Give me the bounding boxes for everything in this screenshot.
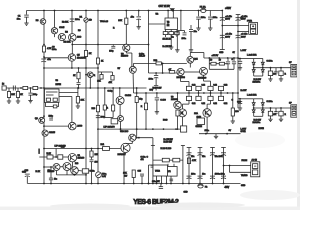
wire R22 lead — [8, 88, 10, 92]
svg-text:R2 10K: R2 10K — [62, 21, 69, 23]
wire Q4b feed — [71, 45, 73, 54]
node j-b188.5 — [188, 183, 190, 185]
IC U6 box — [181, 126, 187, 132]
capacitor C22 — [154, 86, 158, 88]
svg-text:1K 1K 1K: 1K 1K 1K — [163, 38, 172, 40]
IC U2 regulator — [165, 18, 178, 30]
node j-a115 — [43, 115, 45, 117]
node j-b148.0 — [148, 183, 150, 185]
capacitor C9 — [175, 33, 179, 35]
node j-fb2 — [138, 137, 140, 139]
resistor R41 — [103, 147, 110, 151]
svg-text:TRANS: TRANS — [241, 174, 248, 177]
node j-b133.2 — [133, 183, 135, 185]
resistor R-sp20 — [268, 111, 272, 116]
svg-text:AC IN: AC IN — [252, 159, 258, 162]
svg-text:2SA1837: 2SA1837 — [118, 153, 127, 156]
resistor R33 — [219, 62, 224, 65]
wire sp1-bot — [254, 75, 263, 77]
wire sp1-leg1 — [280, 68, 282, 71]
wire R52 lead — [133, 178, 135, 184]
wire bus-C (x=85.5) — [85, 11, 87, 184]
resistor RE2 — [196, 86, 201, 90]
wire CN2-bus — [199, 148, 201, 184]
wire sp1-leg0 — [270, 68, 272, 71]
connector J1 DC input — [249, 23, 258, 35]
svg-text:L 2uH 10R: L 2uH 10R — [247, 95, 257, 97]
wire mid wire y67 — [44, 67, 98, 69]
diode D1 — [84, 18, 88, 22]
transistor Q25 — [96, 172, 102, 178]
svg-text:100n: 100n — [213, 17, 217, 19]
svg-text:100n 25V: 100n 25V — [152, 181, 160, 183]
resistor R52 — [132, 170, 135, 178]
wire vas wire y71 — [98, 71, 113, 73]
node j-b161 — [161, 183, 163, 185]
node sp1-oj1 — [253, 67, 255, 69]
transistor Q19 — [121, 143, 130, 152]
svg-text:2SC4793: 2SC4793 — [77, 57, 87, 59]
wire Q17 em lead3 — [206, 104, 208, 109]
svg-text:471: 471 — [141, 159, 144, 161]
wire Q10 em — [119, 105, 121, 116]
svg-text:0.22: 0.22 — [202, 103, 206, 105]
svg-text:10: 10 — [273, 74, 275, 76]
wire C42 stub — [50, 167, 52, 178]
capacitor C35 — [140, 174, 144, 176]
wire C8 stub — [209, 11, 211, 17]
svg-text:SENSE: SENSE — [196, 126, 203, 128]
transistor Q22c — [71, 167, 79, 175]
wire Q12 coll — [132, 73, 134, 93]
node j-m4 — [177, 92, 179, 94]
resistor R26 — [96, 105, 99, 112]
wire ltp em2 — [66, 171, 68, 175]
resistor R23 — [16, 92, 19, 98]
node j-b91 — [91, 183, 93, 185]
wire Q20 base — [44, 166, 53, 168]
terminal bar Q — [236, 14, 241, 16]
transistor Q21 — [68, 154, 76, 162]
node bus-A j56 — [43, 56, 45, 58]
transistor Q10 — [116, 97, 124, 105]
transistor Q11 — [118, 116, 124, 122]
resistor R-sp10 — [268, 71, 272, 76]
wire bias rail — [204, 57, 238, 59]
wire Q14 coll — [189, 53, 191, 57]
wire sp1-top — [238, 58, 254, 60]
capacitor C14 — [236, 18, 241, 21]
node j-out136.2 — [136, 92, 138, 94]
ground G3 — [169, 46, 173, 50]
wire R34 lead2 — [232, 116, 234, 120]
ground G-sp10 — [268, 78, 272, 82]
resistor R57 — [111, 76, 114, 81]
wire sp2-zobel-stub2 — [239, 104, 241, 107]
node rail-top j125.8 — [125, 10, 127, 12]
wire sp2-zobel-stub — [239, 99, 241, 101]
wire input rail — [3, 87, 147, 89]
IC U5 thermal box — [197, 118, 205, 125]
node j-out198.0 — [198, 92, 200, 94]
wire Q19 em — [123, 152, 125, 183]
wire sp2-leg1 — [280, 108, 282, 111]
fuse F2 — [198, 184, 203, 188]
svg-text:7912: 7912 — [155, 170, 161, 172]
node rail-top j71.5 — [71, 10, 73, 12]
capacitor C42 — [49, 178, 53, 180]
wire U3 pin-r1 — [59, 92, 78, 94]
svg-text:100V: 100V — [225, 36, 230, 38]
node rail-top j198 — [198, 10, 200, 12]
svg-text:0.22: 0.22 — [202, 85, 206, 87]
wire C33 lead — [26, 177, 28, 184]
connector J-IN — [2, 86, 6, 90]
node j-b123.5 — [123, 183, 125, 185]
wire u7 stub1 — [167, 164, 169, 167]
wire C26 lead2 — [156, 100, 158, 111]
capacitor C43 — [90, 160, 94, 162]
wire C11 lead — [190, 25, 192, 29]
node sp2-zj — [239, 98, 241, 100]
svg-text:C3423: C3423 — [125, 95, 132, 97]
svg-text:C 10n: C 10n — [90, 171, 95, 173]
wire sp1-zobel-stub2 — [239, 63, 241, 66]
wire Q4b coll — [71, 41, 73, 44]
capacitor C18 — [49, 118, 53, 120]
resistor R36 — [144, 103, 147, 110]
resistor R21 — [33, 86, 38, 89]
terminal T-IN — [38, 149, 40, 154]
wire bus-D (x=97.5) — [97, 11, 99, 184]
resistor R13 — [169, 32, 174, 35]
capacitor CN2a — [198, 153, 203, 156]
node j-n165b — [229, 165, 231, 167]
transistor Q20 — [53, 164, 60, 171]
node j-fb3 — [97, 148, 99, 150]
svg-text:10u: 10u — [202, 174, 205, 176]
wire R36 lead2 — [145, 110, 147, 129]
capacitor C17 — [28, 93, 32, 95]
wire Q17 coll — [206, 117, 208, 134]
node j-67b — [78, 67, 80, 69]
wire CN1-bus — [188, 148, 190, 184]
svg-text:2SC4793: 2SC4793 — [177, 77, 186, 79]
svg-text:100u: 100u — [191, 174, 195, 176]
node rail-top j43.5 — [43, 10, 45, 12]
wire bias drop — [203, 53, 205, 59]
wire dc+ wire — [222, 25, 248, 27]
node j-b97.5 — [97, 183, 99, 185]
wire Q6 em down — [131, 53, 133, 66]
node j-in2 — [30, 87, 32, 89]
capacitor C8 — [208, 17, 213, 19]
wire sp2-dcol2 — [262, 99, 264, 117]
svg-text:PWR: PWR — [247, 20, 252, 22]
capacitor C24 — [232, 62, 236, 64]
resistor RE4 — [218, 86, 223, 90]
IC U7 relay box — [165, 167, 177, 177]
wire sp2-leg0 — [270, 108, 272, 111]
node rail-top j54 — [54, 10, 56, 12]
svg-text:100n: 100n — [205, 130, 209, 132]
resistor R-sp21 — [279, 111, 283, 116]
svg-text:10u: 10u — [48, 170, 51, 172]
node sp1-oj3 — [270, 67, 272, 69]
node j-tail1 — [74, 174, 76, 176]
wire Q18 out — [136, 137, 153, 139]
resistor R51 — [82, 169, 88, 173]
svg-text:F1 5A: F1 5A — [200, 6, 206, 9]
wire C42 stub2 — [50, 180, 52, 184]
diode D-sp24 — [261, 110, 264, 113]
wire sp1-dcol1 — [253, 59, 255, 77]
capacitor C1 — [24, 15, 29, 17]
resistor R27 — [103, 105, 106, 110]
svg-text:GND: GND — [184, 192, 189, 194]
transistor Q18 — [129, 134, 136, 141]
wire Q21 em — [71, 162, 73, 167]
wire R4 top — [43, 45, 45, 47]
node sp1-oj2 — [262, 67, 264, 69]
svg-text:4.7K: 4.7K — [192, 160, 197, 162]
wire u8 stub1 — [156, 176, 158, 184]
ground G-sp20 — [268, 118, 272, 122]
ground G-sp1z — [238, 67, 242, 71]
node j-p1 — [221, 25, 223, 27]
terminal bar LM2 — [181, 145, 185, 147]
node j-128-175.5 — [175, 128, 177, 130]
wire snub v3b — [233, 64, 235, 70]
resistor R14 — [175, 32, 180, 35]
svg-text:47u: 47u — [191, 156, 194, 158]
capacitor C-sp2z — [238, 102, 242, 104]
node j-q24b — [89, 87, 91, 89]
node j-bias218.7 — [218, 57, 220, 59]
node j-fb0 — [43, 148, 45, 150]
wire sp2-bot — [254, 115, 263, 117]
node rail-top j85.5 — [85, 10, 87, 12]
svg-text:47u 100V: 47u 100V — [215, 156, 224, 158]
wire Q7 base wire — [44, 125, 69, 127]
node bus-A j44 — [43, 44, 45, 46]
wire drv wire-72 — [149, 72, 178, 74]
wire sp1-zobel-stub — [239, 59, 241, 61]
node j-out188.5 — [188, 92, 190, 94]
wire Q10 feed — [119, 88, 121, 97]
wire R23 lead — [17, 88, 19, 92]
node j-m2 — [145, 92, 147, 94]
svg-text:100n: 100n — [52, 49, 56, 51]
svg-text:R 1K: R 1K — [47, 153, 52, 155]
wire sp1-out — [254, 67, 291, 69]
node rail-top j148 — [148, 10, 150, 12]
resistor R46 — [187, 158, 190, 164]
resistor R37 — [176, 110, 179, 116]
wire U3 pin-r2 — [59, 96, 72, 98]
transistor Q23 — [174, 101, 182, 109]
svg-text:C 10p: C 10p — [108, 90, 113, 92]
node bus-A j67 — [43, 67, 45, 69]
svg-text:47u: 47u — [202, 156, 205, 158]
node sp2-oj2 — [262, 107, 264, 109]
wire Q6 em — [125, 51, 127, 53]
node j-c40 — [78, 87, 80, 89]
capacitor C15 — [236, 35, 241, 38]
svg-text:100V: 100V — [241, 36, 246, 38]
wire ac vlink — [229, 166, 231, 173]
wire lm v182 — [182, 146, 184, 184]
node j-out232.3 — [232, 92, 234, 94]
node j-b43.5 — [43, 183, 45, 185]
wire bus-B (x=71.5) — [71, 11, 73, 34]
node j-in4 — [43, 87, 45, 89]
resistor R22 — [7, 92, 10, 98]
svg-text:471-10: 471-10 — [139, 56, 145, 58]
capacitor CN3b — [210, 176, 215, 179]
wire Q16 em lead3 — [182, 104, 184, 109]
wire C9a lead — [176, 31, 178, 33]
diode D2 — [170, 9, 174, 11]
wire sp1-leg1b — [280, 76, 282, 78]
svg-text:2SC5200: 2SC5200 — [198, 78, 207, 80]
wire vas-x136 — [136, 88, 138, 97]
resistor R56 — [100, 75, 103, 80]
svg-text:100n: 100n — [201, 17, 205, 19]
node j-q24 — [85, 74, 87, 76]
svg-text:C945: C945 — [59, 27, 65, 29]
wire lm v152 — [152, 138, 154, 184]
node j-128-163.0 — [163, 128, 165, 130]
svg-text:R5 10K: R5 10K — [64, 42, 72, 44]
ground G10 — [231, 120, 235, 124]
wire C17 lead — [30, 88, 32, 93]
svg-text:100V: 100V — [225, 19, 230, 21]
node j-b156 — [156, 183, 158, 185]
node sp2-oj1 — [253, 107, 255, 109]
wire sp1-dcol2 — [262, 59, 264, 77]
wire C9 stub — [180, 11, 182, 31]
svg-text:0.22: 0.22 — [192, 85, 196, 87]
wire Q2-Q3 link — [54, 34, 56, 37]
wire ltp tail — [57, 174, 87, 176]
wire Q14 top wire — [190, 52, 204, 54]
wire R24 lead2 — [77, 103, 79, 105]
wire C35 lead — [141, 176, 143, 184]
svg-text:R 4.7K 1W: R 4.7K 1W — [163, 46, 172, 48]
svg-text:-50V: -50V — [224, 187, 229, 189]
wire R57 stub — [112, 72, 114, 76]
svg-text:1000u 100n: 1000u 100n — [215, 174, 225, 176]
wire R23 lead2 — [17, 98, 19, 101]
wire ltp in wire2 — [53, 156, 58, 158]
node rail-top j97.5 — [97, 10, 99, 12]
node j-b148 — [148, 183, 150, 185]
capacitor C16 (input coupling) — [13, 86, 15, 91]
capacitor C-sp1m — [274, 68, 277, 76]
node j-n165 — [223, 165, 225, 167]
node j-q1 — [237, 25, 239, 27]
IC U4 small box — [111, 119, 118, 124]
wire vbe wire — [134, 62, 187, 64]
node j-out203.4 — [203, 92, 205, 94]
svg-text:L 2uH 10R: L 2uH 10R — [247, 54, 257, 56]
wire base wire Q4 — [44, 57, 68, 59]
node j-c42 — [50, 166, 52, 168]
terminal bar CN1 — [187, 147, 192, 149]
svg-text:100p: 100p — [109, 51, 113, 53]
svg-text:MUTE: MUTE — [56, 84, 62, 86]
wire snub v3 — [233, 58, 235, 61]
resistor R6 — [84, 51, 87, 57]
wire U2 pin1 — [170, 30, 172, 32]
node j-44a — [85, 44, 87, 46]
svg-text:OUT 27.5V: OUT 27.5V — [159, 6, 171, 8]
transistor Q24 — [88, 72, 94, 78]
wire sp2-leg1b — [280, 116, 282, 118]
resistor R55 — [77, 72, 80, 79]
node j-u2a — [167, 10, 169, 12]
wire R13 gnd lead — [170, 35, 172, 46]
transistor Q15 — [200, 67, 208, 75]
node j-m1 — [156, 92, 158, 94]
capacitor CN1a — [187, 153, 192, 156]
connector J2 AC input — [251, 162, 260, 177]
node j-128-136.2 — [136, 128, 138, 130]
IC U8 box — [153, 165, 168, 176]
transistor Q16 — [179, 109, 187, 117]
wire Q13 em2 — [181, 81, 190, 83]
node j-44b — [97, 44, 99, 46]
node j-bias227.2 — [227, 57, 229, 59]
node j-r47 — [91, 148, 93, 150]
svg-text:FROM: FROM — [242, 160, 248, 162]
node j-72a — [155, 72, 157, 74]
wire reg-in (x=148) — [148, 11, 150, 45]
wire C5 stub — [138, 11, 140, 17]
terminal bar CN4 — [221, 147, 226, 149]
wire C21 lead2 — [155, 78, 157, 85]
wire U3 under-loop — [46, 103, 59, 107]
wire gnd rail y133 — [199, 133, 241, 135]
ground G-sp2z — [238, 107, 242, 111]
svg-text:C 100n: C 100n — [267, 61, 273, 63]
capacitor C7 — [196, 17, 201, 19]
node j-b141.5 — [141, 183, 143, 185]
node rail-top j221.8 — [221, 10, 223, 12]
wire R47 stub — [91, 149, 93, 152]
capacitor C3 — [70, 19, 75, 22]
wire u7 stub2 — [173, 164, 175, 167]
resistor R34 — [231, 108, 234, 116]
wire C1 stub2 — [26, 17, 28, 22]
connector J-sp1 — [291, 65, 297, 77]
svg-text:C 100: C 100 — [160, 100, 166, 102]
wire CN3-bus — [212, 148, 214, 184]
ground G-sp21 — [279, 118, 283, 122]
wire R27 lead2 — [104, 110, 106, 118]
wire C17 lead2 — [30, 95, 32, 99]
wire dc- wire — [238, 31, 249, 33]
node j-out220.5 — [220, 92, 222, 94]
ground G4 — [196, 27, 200, 31]
wire R22 lead2 — [8, 98, 10, 101]
svg-text:0.22: 0.22 — [224, 85, 228, 87]
svg-text:C1815: C1815 — [49, 132, 56, 134]
resistor R44 — [162, 158, 169, 162]
transistor Q1 — [40, 19, 46, 25]
wire Q18 coll — [131, 141, 133, 143]
